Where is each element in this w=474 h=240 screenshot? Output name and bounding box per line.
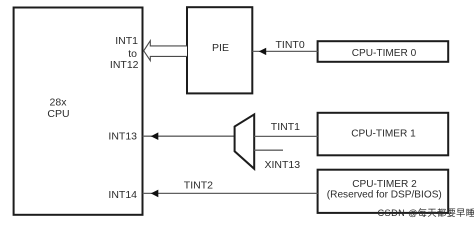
svg-text:CSDN @每天都要早睡A: CSDN @每天都要早睡A: [378, 207, 474, 218]
svg-text:PIE: PIE: [212, 42, 229, 54]
mux trapezoid (TINT1/XINT13 combiner): [235, 114, 255, 168]
hollow arrow INT1-INT12 (PIE to CPU): [144, 41, 187, 61]
svg-text:TINT1: TINT1: [271, 121, 300, 133]
wire TINT0 (CPU-TIMER 0 to PIE): [253, 50, 318, 52]
svg-text:28x: 28x: [50, 96, 68, 108]
svg-text:INT13: INT13: [108, 130, 137, 142]
CPU-TIMER 2 block: [318, 170, 449, 213]
svg-text:CPU-TIMER 2: CPU-TIMER 2: [352, 179, 417, 190]
svg-text:CPU-TIMER 0: CPU-TIMER 0: [352, 48, 417, 59]
PIE block: [187, 7, 252, 93]
svg-text:INT1: INT1: [115, 35, 138, 47]
svg-text:TINT2: TINT2: [184, 180, 213, 192]
svg-text:XINT13: XINT13: [265, 159, 301, 171]
wire TINT2 (CPU-TIMER 2 to CPU INT14): [143, 192, 318, 194]
svg-text:TINT0: TINT0: [276, 39, 305, 51]
svg-text:INT12: INT12: [110, 59, 139, 71]
wire XINT13 stub (into mux): [254, 149, 283, 151]
CPU block: [14, 8, 143, 215]
svg-text:INT14: INT14: [108, 189, 137, 201]
arrowhead TINT2 into CPU: [151, 190, 159, 198]
wire INT13 (mux output to CPU): [143, 135, 235, 137]
arrowhead INT13 into CPU: [151, 132, 159, 140]
svg-text:CPU-TIMER 1: CPU-TIMER 1: [351, 128, 416, 139]
wire TINT1 (CPU-TIMER 1 to mux): [254, 135, 317, 137]
arrowhead TINT0 into PIE: [259, 48, 266, 55]
svg-text:(Reserved for DSP/BIOS): (Reserved for DSP/BIOS): [327, 189, 442, 200]
CPU-TIMER 0 block: [318, 41, 449, 62]
svg-text:CPU: CPU: [47, 108, 69, 120]
CPU-TIMER 1 block: [318, 113, 449, 156]
